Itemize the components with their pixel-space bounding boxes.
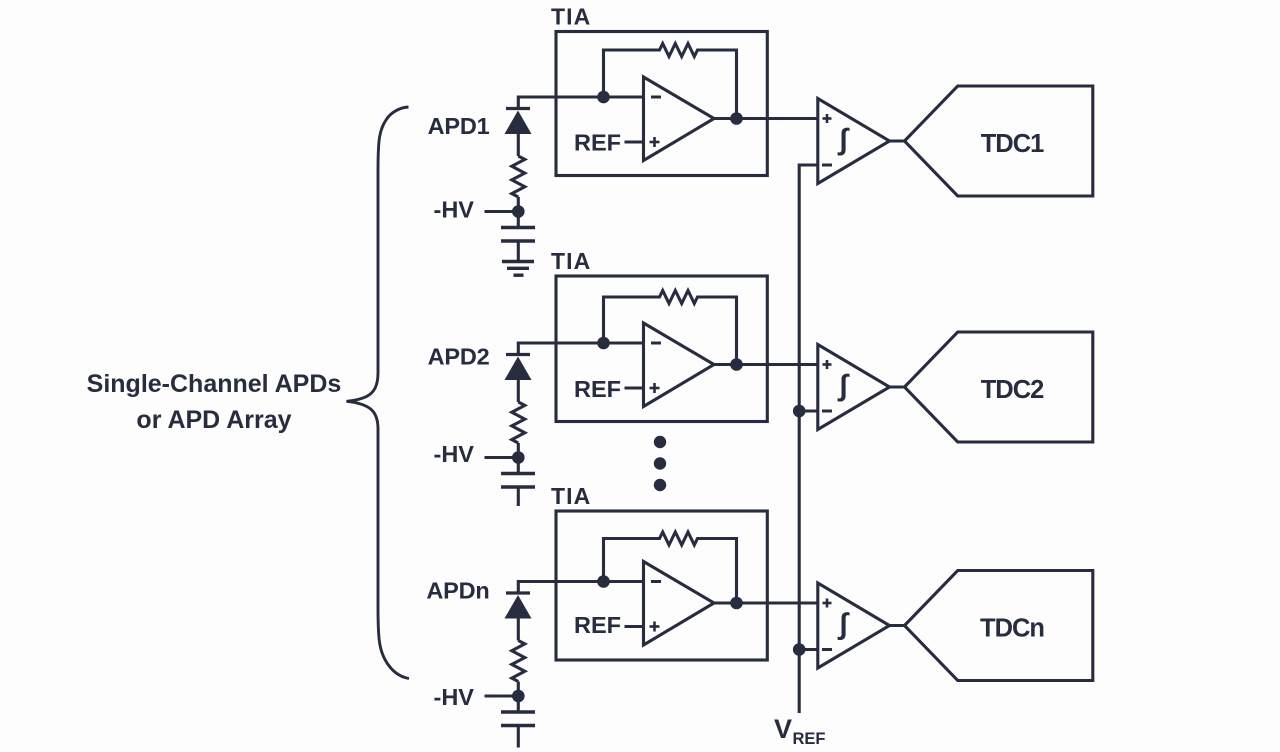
svg-text:APD1: APD1 (428, 113, 490, 139)
feedback resistor Rf1 loop (604, 44, 737, 119)
svg-text:REF: REF (574, 376, 621, 402)
wire: U1 output to comparator A1 + input (714, 117, 818, 120)
op-amp U3 non-inverting (+) pin mark (650, 622, 660, 632)
TDC2 block (905, 332, 1093, 442)
op-amp U1 inverting (-) pin mark (651, 96, 661, 99)
TIA1 block box (556, 32, 767, 176)
label VREF (774, 714, 826, 748)
comparator A2 + pin mark (823, 360, 832, 369)
svg-text:Single-Channel APDs: Single-Channel APDs (87, 370, 342, 398)
label: Single-Channel APDs or APD Array (87, 370, 342, 434)
capacitor C3 (501, 712, 535, 726)
wire: REF lead to U1 + input (625, 140, 644, 143)
wire: -HV lead (485, 210, 514, 213)
comparator A3 - pin mark (822, 648, 832, 651)
svg-text:TDC2: TDC2 (981, 376, 1044, 404)
feedback resistor Rf2 loop (604, 291, 737, 365)
svg-text:TIA: TIA (551, 248, 591, 274)
svg-text:or APD Array: or APD Array (136, 406, 291, 434)
comparator A1 - pin mark (822, 164, 832, 167)
wire: REF lead to U2 + input (625, 386, 644, 389)
svg-text:REF: REF (574, 612, 621, 638)
ground (channel 1) (502, 241, 534, 275)
wire: REF lead to U3 + input (625, 625, 644, 628)
op-amp U1 (644, 77, 715, 161)
wire: A3 output to TDCn (888, 624, 906, 627)
op-amp U2 non-inverting (+) pin mark (650, 383, 660, 393)
bias resistor R3 (512, 641, 525, 682)
junction: -HV node 2 (512, 451, 525, 464)
ellipsis: more channels dots (654, 436, 666, 491)
op-amp U3 inverting (-) pin mark (651, 580, 661, 583)
junction: VREF / A2 - input (793, 405, 806, 418)
svg-text:V: V (774, 714, 792, 744)
wire: APD3 cathode to TIA3 inverting input (518, 582, 643, 594)
svg-text:-HV: -HV (434, 197, 475, 223)
wire: VREF tap to A2 - input (799, 409, 818, 412)
junction: U2 output node (730, 358, 743, 371)
svg-text:REF: REF (574, 130, 621, 156)
junction: -HV node 3 (512, 690, 525, 703)
wire: APD1 cathode to TIA1 inverting input (518, 97, 643, 109)
comparator A3 + pin mark (823, 599, 832, 608)
svg-text:-HV: -HV (434, 684, 475, 710)
junction: TIA2 input node (597, 337, 610, 350)
comparator A2 (integrating) (818, 345, 890, 430)
svg-text:-HV: -HV (434, 441, 475, 467)
svg-text:∫: ∫ (837, 123, 850, 156)
TDCn block (905, 571, 1093, 681)
ground stub (channel 3) (517, 726, 520, 748)
op-amp U1 non-inverting (+) pin mark (650, 137, 660, 147)
svg-text:TIA: TIA (551, 483, 591, 509)
bias resistor R1 (512, 156, 525, 197)
photodiode APD1 (505, 109, 532, 157)
wire: U3 output to comparator A3 + input (714, 601, 818, 604)
wire: A1 output to TDC1 (888, 139, 906, 142)
bias resistor R2 (512, 402, 525, 443)
junction: U1 output node (730, 112, 743, 125)
wire: R3 to -HV node (517, 682, 520, 713)
svg-text:TDC1: TDC1 (981, 130, 1044, 158)
wire: VREF net vertical rail with A1 - input (799, 165, 818, 713)
wire: U2 output to comparator A2 + input (714, 363, 818, 366)
svg-text:TDCn: TDCn (980, 615, 1044, 643)
photodiode APDn (505, 593, 532, 641)
TDC1 block (905, 86, 1093, 196)
junction: U3 output node (730, 597, 743, 610)
svg-text:∫: ∫ (837, 369, 850, 402)
svg-text:TIA: TIA (551, 4, 591, 30)
wire: A2 output to TDC2 (888, 385, 906, 388)
junction: VREF / A3 - input (793, 643, 806, 656)
wire: -HV lead (485, 456, 514, 459)
comparator A1 (integrating) (818, 99, 890, 184)
wire: APD2 cathode to TIA2 inverting input (518, 343, 643, 355)
ground stub (channel 2) (517, 487, 520, 506)
svg-text:REF: REF (793, 730, 826, 748)
wire: R1 to -HV node (517, 197, 520, 228)
TIA3 block box (556, 511, 767, 660)
svg-text:∫: ∫ (837, 608, 850, 641)
TIA2 block box (556, 276, 767, 422)
svg-text:APDn: APDn (426, 578, 489, 604)
wire: -HV lead (485, 694, 514, 697)
capacitor C1 (501, 228, 535, 242)
junction: -HV node 1 (512, 205, 525, 218)
op-amp U2 inverting (-) pin mark (651, 342, 661, 345)
junction: TIA3 input node (597, 575, 610, 588)
feedback resistor Rf3 loop (604, 532, 737, 603)
brace: single-channel APDs grouping (347, 107, 410, 679)
comparator A3 (integrating) (818, 583, 890, 668)
svg-text:APD2: APD2 (428, 344, 490, 370)
capacitor C2 (501, 474, 535, 488)
wire: VREF tap to A3 - input (799, 648, 818, 651)
junction: TIA1 input node (597, 91, 610, 104)
op-amp U3 (644, 562, 715, 646)
comparator A2 - pin mark (822, 410, 832, 413)
photodiode APD2 (505, 355, 532, 403)
comparator A1 + pin mark (823, 114, 832, 123)
wire: R2 to -HV node (517, 443, 520, 474)
op-amp U2 (644, 323, 715, 407)
